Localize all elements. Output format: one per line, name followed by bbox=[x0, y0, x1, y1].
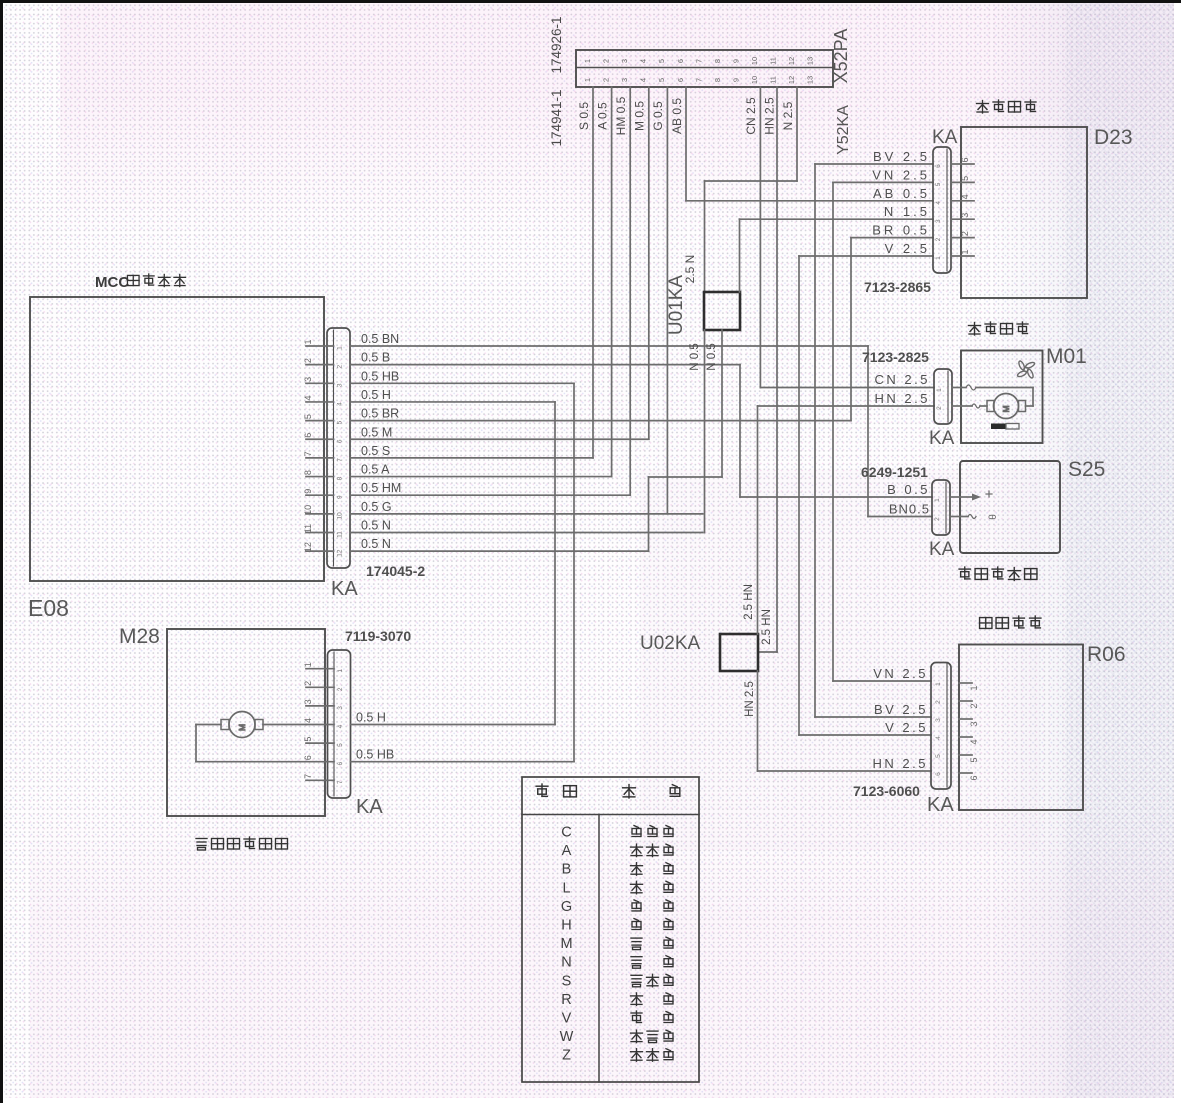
label KA (M28) bbox=[356, 796, 383, 818]
wire 0.5 G from E08 pin 10 bbox=[350, 500, 703, 514]
svg-text:0.5 A: 0.5 A bbox=[361, 463, 390, 477]
legend letter L bbox=[562, 880, 570, 896]
E08 pin 5 tick and number bbox=[303, 414, 344, 424]
svg-text:1: 1 bbox=[337, 346, 344, 350]
legend letter W bbox=[560, 1029, 574, 1045]
D23 pin 5 stub and number bbox=[935, 176, 974, 186]
svg-text:4: 4 bbox=[337, 724, 344, 728]
svg-text:1: 1 bbox=[583, 78, 592, 82]
wire label BR 0.5 bbox=[872, 223, 930, 238]
E08 pin 2 tick and number bbox=[303, 358, 344, 368]
svg-text:2: 2 bbox=[337, 687, 344, 691]
temperature sensor box S25 bbox=[960, 461, 1060, 553]
M01 pin 1 stub bbox=[936, 388, 961, 392]
svg-text:1: 1 bbox=[303, 339, 313, 344]
wire BR 0.5 D23 pin2 to E08 pin5 bbox=[850, 238, 852, 421]
wire label N 0.5 left (rotated) bbox=[689, 343, 701, 371]
legend colour zong bbox=[631, 937, 673, 950]
title speed control (sudu kongzhi) bbox=[980, 616, 1041, 628]
svg-text:7123-2865: 7123-2865 bbox=[864, 279, 931, 295]
svg-text:4: 4 bbox=[639, 59, 648, 63]
wire 0.5 H from M28 pin4 bbox=[351, 711, 556, 725]
wire label N 1.5 bbox=[884, 204, 930, 219]
svg-text:3: 3 bbox=[303, 699, 313, 704]
connector KA strip on D23 bbox=[933, 147, 951, 273]
legend colour lanzi bbox=[631, 1049, 674, 1062]
svg-text:A: A bbox=[562, 843, 572, 859]
svg-text:7: 7 bbox=[337, 458, 344, 462]
svg-text:2: 2 bbox=[303, 358, 313, 363]
label Y52KA (rotated) bbox=[835, 105, 852, 155]
R06 pin 5 stub and number bbox=[935, 754, 979, 763]
svg-text:2: 2 bbox=[936, 406, 943, 410]
svg-text:AB 0.5: AB 0.5 bbox=[670, 98, 684, 134]
label 7119-3070 bbox=[345, 628, 411, 644]
label KA (E08 connector) bbox=[331, 578, 358, 600]
wire riser G to X52PA bbox=[666, 87, 668, 514]
M01 internal wiring pin2 bbox=[961, 404, 987, 408]
wire label HN 2.5 (rotated, bottom) bbox=[744, 681, 756, 717]
svg-text:G: G bbox=[561, 899, 572, 915]
svg-text:174926-1: 174926-1 bbox=[549, 16, 564, 73]
svg-text:5: 5 bbox=[657, 78, 666, 82]
wire label VN 2.5 bbox=[872, 167, 930, 182]
svg-text:9: 9 bbox=[731, 78, 740, 82]
wire VN 2.5 to R06 pin1 bbox=[833, 680, 931, 682]
wire 0.5 M from E08 pin 6 bbox=[350, 425, 649, 439]
svg-text:8: 8 bbox=[303, 470, 313, 475]
svg-text:θ: θ bbox=[988, 514, 999, 520]
svg-text:KA: KA bbox=[927, 794, 954, 816]
svg-text:X52PA: X52PA bbox=[831, 29, 851, 84]
svg-text:6: 6 bbox=[960, 157, 970, 162]
svg-text:HM 0.5: HM 0.5 bbox=[614, 96, 628, 135]
svg-text:1: 1 bbox=[935, 256, 942, 260]
legend colour qianlan bbox=[631, 844, 674, 857]
connector X52PA pin numbers row 2 bbox=[583, 76, 815, 84]
svg-text:1: 1 bbox=[583, 59, 592, 63]
wire label HN 2.5 (rotated) bbox=[763, 97, 777, 135]
legend letter R bbox=[561, 992, 571, 1008]
svg-text:W: W bbox=[560, 1029, 574, 1045]
E08 pin 12 tick and number bbox=[303, 542, 344, 557]
svg-text:7123-2825: 7123-2825 bbox=[862, 349, 929, 365]
svg-text:KA: KA bbox=[929, 428, 955, 449]
svg-text:6: 6 bbox=[303, 433, 313, 438]
S25 internal sensor symbol bbox=[960, 491, 999, 520]
svg-text:6249-1251: 6249-1251 bbox=[861, 464, 928, 480]
svg-text:5: 5 bbox=[337, 743, 344, 747]
svg-text:5: 5 bbox=[960, 176, 970, 181]
svg-text:BN0.5: BN0.5 bbox=[889, 502, 930, 517]
label D23 bbox=[1094, 126, 1133, 149]
D23 pin 6 stub and number bbox=[935, 157, 974, 167]
R06 pin 2 stub and number bbox=[935, 700, 979, 709]
wire label AB 0.5 (rotated) bbox=[670, 98, 684, 134]
wire label 2.5 HN (rotated, top) bbox=[743, 584, 755, 620]
svg-text:CN 2.5: CN 2.5 bbox=[875, 372, 930, 387]
svg-text:V: V bbox=[562, 1011, 572, 1027]
svg-text:KA: KA bbox=[356, 796, 383, 818]
wire V 2.5 D23 pin1 to R06 pin4 bbox=[798, 256, 800, 735]
wire riser HM to X52PA bbox=[629, 87, 631, 495]
wire AB 0.5 from X52PA pin6 to D23 pin4 bbox=[686, 87, 933, 201]
svg-text:HN 2.5: HN 2.5 bbox=[873, 756, 928, 771]
legend header yanse (colour) bbox=[623, 785, 680, 798]
connector KA strip on M28 bbox=[328, 650, 351, 798]
wire label V 2.5 (R06) bbox=[885, 720, 928, 735]
M28 pin 7 tick and number bbox=[303, 774, 344, 784]
svg-text:H: H bbox=[561, 918, 571, 934]
svg-text:KA: KA bbox=[932, 127, 958, 148]
legend colour hong bbox=[631, 993, 674, 1006]
svg-text:M 0.5: M 0.5 bbox=[633, 101, 647, 131]
wire label BV 2.5 bbox=[873, 149, 930, 164]
wire label A 0.5 (rotated) bbox=[596, 102, 610, 130]
svg-text:S 0.5: S 0.5 bbox=[577, 102, 591, 130]
wire V 2.5 to R06 pin4 bbox=[799, 734, 931, 736]
speed control box R06 bbox=[959, 645, 1083, 811]
svg-text:5: 5 bbox=[935, 182, 942, 186]
legend letter V bbox=[562, 1011, 572, 1027]
wire BN 0.5 to S25 pin2 bbox=[868, 516, 932, 518]
title temperature sensor (wendu chuanganqi) bbox=[959, 567, 1037, 580]
E08 pin 9 tick and number bbox=[303, 489, 344, 499]
label 7123-2825 bbox=[862, 349, 929, 365]
svg-text:N 2.5: N 2.5 bbox=[781, 101, 795, 130]
label 7123-6060 bbox=[853, 783, 920, 799]
junction box U01KA bbox=[704, 292, 740, 330]
svg-text:12: 12 bbox=[303, 542, 313, 552]
E08 pin 4 tick and number bbox=[303, 395, 344, 405]
label 174926-1 (rotated) bbox=[549, 16, 564, 73]
wire label AB 0.5 bbox=[873, 186, 930, 201]
label M01 bbox=[1046, 345, 1087, 368]
svg-text:VN 2.5: VN 2.5 bbox=[872, 167, 930, 182]
fan switch box D23 bbox=[961, 127, 1087, 298]
svg-text:5: 5 bbox=[337, 420, 344, 424]
svg-text:E08: E08 bbox=[28, 595, 69, 621]
svg-text:6: 6 bbox=[303, 755, 313, 760]
legend table frame bbox=[522, 777, 699, 1082]
svg-text:7: 7 bbox=[303, 774, 313, 779]
svg-text:4: 4 bbox=[337, 402, 344, 406]
legend letter M bbox=[560, 936, 572, 952]
svg-text:11: 11 bbox=[769, 57, 778, 65]
svg-text:0.5 N: 0.5 N bbox=[361, 519, 391, 533]
svg-text:3: 3 bbox=[620, 78, 629, 82]
svg-text:Z: Z bbox=[562, 1048, 571, 1064]
wire BV 2.5 to R06 pin3 bbox=[815, 716, 931, 718]
M28 pin 3 tick and number bbox=[303, 699, 344, 709]
svg-text:4: 4 bbox=[935, 736, 942, 740]
connector KA 174045-2 strip on E08 bbox=[327, 328, 350, 568]
legend colour hui bbox=[632, 919, 673, 930]
connector X52PA body bbox=[576, 50, 833, 87]
E08 pin 10 tick and number bbox=[303, 505, 344, 520]
wire BR 0.5 to D23 pin2 bbox=[851, 237, 933, 239]
svg-text:HN 2.5: HN 2.5 bbox=[763, 97, 777, 135]
svg-text:3: 3 bbox=[960, 213, 970, 218]
label 174045-2 bbox=[366, 563, 425, 579]
wire label N 2.5 (rotated) bbox=[781, 101, 795, 130]
label 7123-2865 bbox=[864, 279, 931, 295]
svg-text:2: 2 bbox=[337, 364, 344, 368]
svg-text:BR 0.5: BR 0.5 bbox=[872, 223, 930, 238]
wire 2.5 HN from M01 pin2 down to U02KA bbox=[758, 406, 935, 634]
svg-text:6: 6 bbox=[969, 775, 979, 780]
E08 pin 8 tick and number bbox=[303, 470, 344, 480]
label U02KA bbox=[640, 633, 701, 654]
svg-text:0.5 H: 0.5 H bbox=[361, 388, 391, 402]
svg-text:0.5 M: 0.5 M bbox=[361, 425, 392, 439]
svg-text:S25: S25 bbox=[1068, 458, 1105, 481]
svg-text:12: 12 bbox=[787, 57, 796, 65]
wire label VN 2.5 (R06) bbox=[873, 666, 928, 681]
svg-text:1: 1 bbox=[969, 685, 979, 690]
label KA (M01) bbox=[929, 428, 955, 449]
svg-text:HN 2.5: HN 2.5 bbox=[875, 391, 930, 406]
wire label BV 2.5 (R06) bbox=[874, 702, 928, 717]
svg-text:4: 4 bbox=[935, 201, 942, 205]
svg-text:174045-2: 174045-2 bbox=[366, 563, 425, 579]
legend letter G bbox=[561, 899, 572, 915]
legend letter A bbox=[562, 843, 572, 859]
svg-text:13: 13 bbox=[806, 57, 815, 65]
svg-text:7119-3070: 7119-3070 bbox=[345, 628, 411, 644]
svg-text:10: 10 bbox=[303, 505, 313, 515]
M01 pin 2 stub bbox=[936, 406, 961, 410]
svg-text:2: 2 bbox=[935, 700, 942, 704]
R06 pin 3 stub and number bbox=[935, 718, 979, 727]
wire BV 2.5 D23 pin6 to R06 pin3 bbox=[814, 164, 816, 717]
svg-text:0.5 G: 0.5 G bbox=[361, 500, 392, 514]
wire CN 2.5 from X52PA pin10 to M01 pin1 bbox=[760, 87, 934, 388]
legend letter N bbox=[561, 955, 571, 971]
wire VN 2.5 to D23 pin5 bbox=[833, 181, 933, 183]
label S25 bbox=[1068, 458, 1105, 481]
legend letter B bbox=[562, 862, 572, 878]
svg-text:2.5 N: 2.5 N bbox=[683, 255, 697, 284]
svg-text:5: 5 bbox=[969, 757, 979, 762]
wire 0.5 B from E08 pin 2 bbox=[350, 351, 740, 365]
svg-text:V 2.5: V 2.5 bbox=[885, 720, 928, 735]
svg-text:9: 9 bbox=[731, 59, 740, 63]
wire 0.5 N from E08 pin 12 bbox=[350, 537, 649, 551]
wire N 0.5 from U01KA to E08 pin 12 bbox=[649, 330, 723, 551]
svg-text:7123-6060: 7123-6060 bbox=[853, 783, 920, 799]
wire label N 0.5 right (rotated) bbox=[706, 343, 718, 371]
legend letter C bbox=[561, 825, 571, 841]
M28 pin 1 tick and number bbox=[303, 662, 344, 672]
svg-text:N 0.5: N 0.5 bbox=[689, 343, 701, 371]
legend colour pinhong bbox=[631, 974, 673, 987]
svg-text:KA: KA bbox=[929, 539, 955, 560]
svg-text:2.5 HN: 2.5 HN bbox=[761, 609, 773, 645]
wire N 2.5 from X52PA pin12 to U01KA bbox=[705, 87, 798, 292]
wire 0.5 S from E08 pin 7 bbox=[350, 444, 593, 458]
svg-text:12: 12 bbox=[787, 76, 796, 84]
connector X52PA pin numbers row 1 bbox=[583, 57, 815, 65]
svg-text:4: 4 bbox=[639, 78, 648, 82]
svg-text:3: 3 bbox=[935, 219, 942, 223]
M28 pin 5 tick and number bbox=[303, 737, 344, 747]
svg-text:VN 2.5: VN 2.5 bbox=[873, 666, 928, 681]
svg-text:0.5 HB: 0.5 HB bbox=[361, 369, 399, 383]
fan motor box M01 bbox=[961, 351, 1043, 444]
legend letter S bbox=[562, 973, 572, 989]
wire label B 0.5 bbox=[887, 482, 930, 497]
M01 internal wiring pin1 with thermal limiter squiggle bbox=[961, 385, 1033, 406]
connector KA strip on M01 bbox=[934, 369, 952, 424]
svg-text:3: 3 bbox=[337, 383, 344, 387]
svg-text:2: 2 bbox=[303, 681, 313, 686]
D23 pin 2 stub and number bbox=[935, 231, 974, 241]
svg-text:12: 12 bbox=[337, 549, 344, 557]
svg-text:11: 11 bbox=[337, 531, 344, 538]
svg-text:10: 10 bbox=[750, 76, 759, 84]
R06 pin 6 stub and number bbox=[935, 772, 979, 781]
legend colour lv bbox=[631, 1011, 673, 1023]
svg-text:8: 8 bbox=[337, 476, 344, 480]
svg-text:M: M bbox=[560, 936, 572, 952]
svg-text:1: 1 bbox=[934, 498, 941, 502]
wire 0.5 HB from M28 pin6 bbox=[351, 748, 575, 762]
connector KA strip on R06 bbox=[931, 663, 951, 790]
wire label G 0.5 (rotated) bbox=[651, 101, 665, 131]
svg-text:13: 13 bbox=[806, 76, 815, 84]
wire riser A to X52PA bbox=[611, 87, 613, 477]
svg-text:1: 1 bbox=[936, 388, 943, 392]
svg-text:5: 5 bbox=[935, 754, 942, 758]
E08 pin 11 tick and number bbox=[303, 524, 344, 538]
svg-text:4: 4 bbox=[969, 739, 979, 744]
M01 brush bar symbol bbox=[991, 424, 1019, 430]
wire 0.5 H from E08 pin 4 bbox=[350, 388, 555, 402]
svg-text:10: 10 bbox=[750, 57, 759, 65]
label KA (D23) bbox=[932, 127, 958, 148]
svg-text:R06: R06 bbox=[1087, 643, 1126, 666]
title MCC diankong danyuan bbox=[95, 274, 186, 291]
svg-text:M: M bbox=[237, 724, 247, 731]
D23 pin 4 stub and number bbox=[935, 194, 974, 204]
legend colour bai bbox=[631, 863, 674, 876]
svg-text:N 1.5: N 1.5 bbox=[884, 204, 930, 219]
wire riser M to X52PA bbox=[648, 87, 650, 439]
M28 pin 2 tick and number bbox=[303, 681, 344, 691]
svg-text:3: 3 bbox=[303, 377, 313, 382]
legend header fuhao (symbol) bbox=[536, 784, 576, 797]
label U01KA (rotated) bbox=[666, 275, 687, 336]
R06 pin 4 stub and number bbox=[935, 736, 979, 745]
svg-text:6: 6 bbox=[337, 439, 344, 443]
label M28 bbox=[119, 625, 160, 648]
fan symbol bbox=[1017, 360, 1036, 379]
wire HN 2.5 from U02KA to R06 pin6 bbox=[758, 671, 932, 771]
svg-text:7: 7 bbox=[337, 780, 344, 784]
legend colour hei bbox=[631, 956, 673, 969]
E08 pin 1 tick and number bbox=[303, 339, 344, 349]
svg-text:N: N bbox=[561, 955, 571, 971]
svg-text:0.5 S: 0.5 S bbox=[361, 444, 390, 458]
label 6249-1251 bbox=[861, 464, 928, 480]
label R06 bbox=[1087, 643, 1126, 666]
svg-text:0.5 BR: 0.5 BR bbox=[361, 407, 399, 421]
motor M symbol (M28) bbox=[221, 712, 263, 738]
wire N 1.5 from U01KA to D23 pin3 bbox=[740, 219, 934, 292]
R06 pin 1 stub and number bbox=[935, 682, 979, 691]
wire BN 0.5 E08 pin1 to S25 pin2 bbox=[867, 346, 869, 517]
svg-text:G 0.5: G 0.5 bbox=[651, 101, 665, 131]
wire label S 0.5 (rotated) bbox=[577, 102, 591, 130]
D23 pin 3 stub and number bbox=[935, 213, 974, 223]
M28 pin 6 tick and number bbox=[303, 755, 344, 765]
motor M symbol (M01) bbox=[987, 394, 1026, 419]
wire N 0.5 from U01KA to E08 pin 11 bbox=[704, 330, 706, 533]
legend colour lan bbox=[631, 881, 674, 894]
svg-text:6: 6 bbox=[676, 78, 685, 82]
svg-text:0.5 BN: 0.5 BN bbox=[361, 332, 399, 346]
label 174941-1 (rotated) bbox=[549, 89, 564, 146]
E08 pin 6 tick and number bbox=[303, 433, 344, 443]
wire label HN 2.5 (R06) bbox=[873, 756, 928, 771]
title fan switch (fengji kaiguan) bbox=[977, 100, 1037, 113]
svg-text:U02KA: U02KA bbox=[640, 633, 701, 654]
junction box U02KA bbox=[720, 634, 758, 671]
svg-text:2: 2 bbox=[602, 59, 611, 63]
svg-text:174941-1: 174941-1 bbox=[549, 89, 564, 146]
svg-text:3: 3 bbox=[337, 706, 344, 710]
MCC ECU box E08 bbox=[30, 297, 324, 581]
svg-text:MCC: MCC bbox=[95, 274, 129, 291]
wire label V 2.5 bbox=[885, 241, 930, 256]
legend letter Z bbox=[562, 1048, 571, 1064]
svg-text:5: 5 bbox=[657, 59, 666, 63]
svg-text:V 2.5: V 2.5 bbox=[885, 241, 930, 256]
svg-text:7: 7 bbox=[694, 78, 703, 82]
svg-text:0.5 HM: 0.5 HM bbox=[361, 481, 401, 495]
svg-text:4: 4 bbox=[303, 395, 313, 400]
wire riser S to X52PA bbox=[592, 87, 594, 458]
wire 0.5 A from E08 pin 8 bbox=[350, 463, 612, 477]
S25 pin 1 stub bbox=[934, 497, 960, 502]
svg-text:0.5 H: 0.5 H bbox=[356, 711, 386, 725]
wire label BN0.5 bbox=[889, 502, 930, 517]
wire label 2.5 HN (rotated, right) bbox=[761, 609, 773, 645]
svg-text:6: 6 bbox=[337, 762, 344, 766]
M28 motor wire to pin4 bbox=[263, 724, 306, 726]
E08 pin 7 tick and number bbox=[303, 451, 344, 461]
svg-text:1: 1 bbox=[960, 249, 970, 254]
wire label HM 0.5 (rotated) bbox=[614, 96, 628, 135]
wire HN 2.5 from X52PA pin11 to U02KA bbox=[758, 87, 777, 652]
svg-text:7: 7 bbox=[303, 451, 313, 456]
wire 0.5 BR from E08 pin 5 bbox=[350, 407, 851, 421]
svg-text:1: 1 bbox=[303, 662, 313, 667]
wire 0.5 N from E08 pin 11 bbox=[350, 519, 703, 533]
wire BV 2.5 to D23 pin6 bbox=[815, 163, 933, 165]
M28 motor loop wire to pin6 bbox=[196, 725, 306, 762]
legend letter H bbox=[561, 918, 571, 934]
svg-text:9: 9 bbox=[303, 489, 313, 494]
svg-text:8: 8 bbox=[713, 78, 722, 82]
recirculation actuator box M28 bbox=[167, 629, 325, 816]
svg-text:4: 4 bbox=[303, 718, 313, 723]
svg-text:2: 2 bbox=[960, 231, 970, 236]
svg-text:11: 11 bbox=[769, 76, 778, 84]
S25 pin 2 stub bbox=[934, 517, 960, 521]
wire V 2.5 to D23 pin1 bbox=[799, 255, 933, 257]
